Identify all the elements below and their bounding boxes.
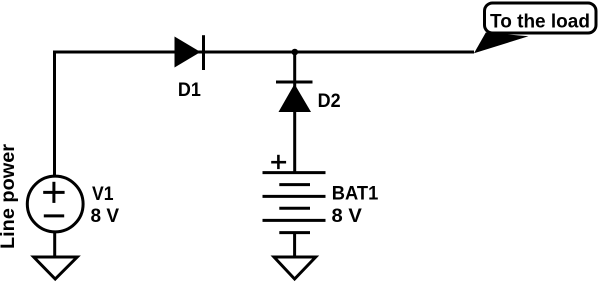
svg-text:D1: D1 xyxy=(178,80,201,101)
diode D2 xyxy=(276,82,313,112)
svg-text:V1: V1 xyxy=(92,184,114,205)
wire V1 to ground xyxy=(53,232,56,257)
ground (battery) xyxy=(274,257,316,279)
node junction dot xyxy=(292,49,299,56)
svg-text:D2: D2 xyxy=(318,91,341,112)
svg-text:To the load: To the load xyxy=(490,12,590,33)
ground (V1) xyxy=(34,257,77,279)
svg-text:BAT1: BAT1 xyxy=(332,184,379,205)
battery BAT1 plus mark xyxy=(271,155,286,169)
diode D1 xyxy=(175,35,204,70)
voltage source V1 xyxy=(27,176,83,232)
wire middle vertical xyxy=(293,52,296,173)
wire left vertical xyxy=(53,51,56,177)
wire battery to ground xyxy=(293,233,296,257)
svg-text:8 V: 8 V xyxy=(91,206,120,227)
battery BAT1 xyxy=(263,173,326,233)
svg-text:Line power: Line power xyxy=(0,143,19,249)
wire top horizontal xyxy=(53,51,474,54)
callout bubble To the load xyxy=(485,3,597,33)
callout tail xyxy=(474,33,529,54)
svg-text:8 V: 8 V xyxy=(332,206,363,227)
